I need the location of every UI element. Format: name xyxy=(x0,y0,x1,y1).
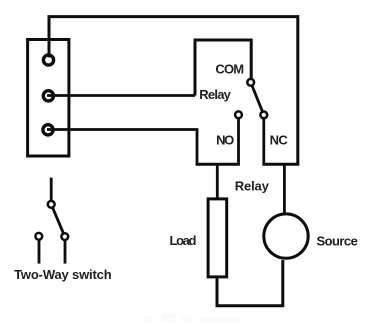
two-way switch left stub xyxy=(38,240,41,263)
svg-text:Load: Load xyxy=(170,233,197,248)
wire from relay down to load xyxy=(216,164,219,198)
relay bottom edge right segment xyxy=(262,163,299,166)
NC terminal circle xyxy=(260,112,267,119)
two-way switch: common stub xyxy=(50,178,53,201)
terminal circle bottom xyxy=(43,125,53,135)
NO terminal circle xyxy=(235,111,242,118)
bottom wire to relay, turning down xyxy=(47,130,197,165)
wire stub into top terminal xyxy=(48,52,51,58)
wire from relay down to source xyxy=(283,164,286,213)
two-way switch left contact circle xyxy=(35,233,42,240)
terminal circle middle xyxy=(43,91,53,101)
two-way switch right stub xyxy=(64,241,67,264)
two-way switch common circle xyxy=(48,201,55,208)
svg-text:Source: Source xyxy=(317,233,358,248)
svg-text:NO: NO xyxy=(216,133,234,148)
NO wire down xyxy=(237,119,240,165)
relay box outline: left edge + top edge + COM drop xyxy=(195,40,251,96)
svg-text:Two-Way switch: Two-Way switch xyxy=(14,267,112,282)
relay bottom edge left segment xyxy=(196,163,240,166)
wire from load to bottom, across, up to source xyxy=(217,260,283,306)
NC wire down xyxy=(262,119,265,165)
svg-text:Relay: Relay xyxy=(199,87,231,102)
two-way switch right contact circle xyxy=(61,233,68,240)
svg-text:COM: COM xyxy=(215,62,244,77)
load rectangle xyxy=(208,199,227,277)
svg-text:Relay: Relay xyxy=(235,178,270,193)
source circle xyxy=(264,214,308,258)
svg-text:NC: NC xyxy=(270,133,289,148)
wire from top terminal up, across top, down right side xyxy=(49,17,298,165)
two-way switch arm diagonal xyxy=(51,204,65,236)
connector box (left terminal block) xyxy=(28,40,69,157)
faint cut-off watermark at bottom xyxy=(144,314,241,322)
terminal circle top xyxy=(43,55,53,65)
COM terminal circle xyxy=(247,79,254,86)
relay switch arm (COM to NC diagonal) xyxy=(251,82,264,115)
middle wire to relay xyxy=(47,94,195,97)
